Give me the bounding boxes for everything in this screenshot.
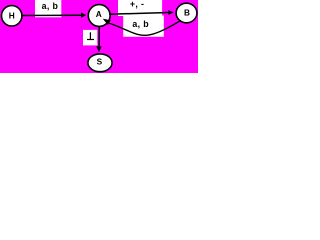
svg-text:H: H bbox=[9, 11, 15, 21]
svg-text:+, -: +, - bbox=[130, 0, 144, 9]
svg-text:A: A bbox=[96, 9, 102, 19]
svg-text:S: S bbox=[97, 57, 103, 67]
svg-text:a, b: a, b bbox=[42, 1, 59, 11]
svg-text:B: B bbox=[184, 7, 190, 17]
svg-text:a, b: a, b bbox=[132, 19, 149, 29]
